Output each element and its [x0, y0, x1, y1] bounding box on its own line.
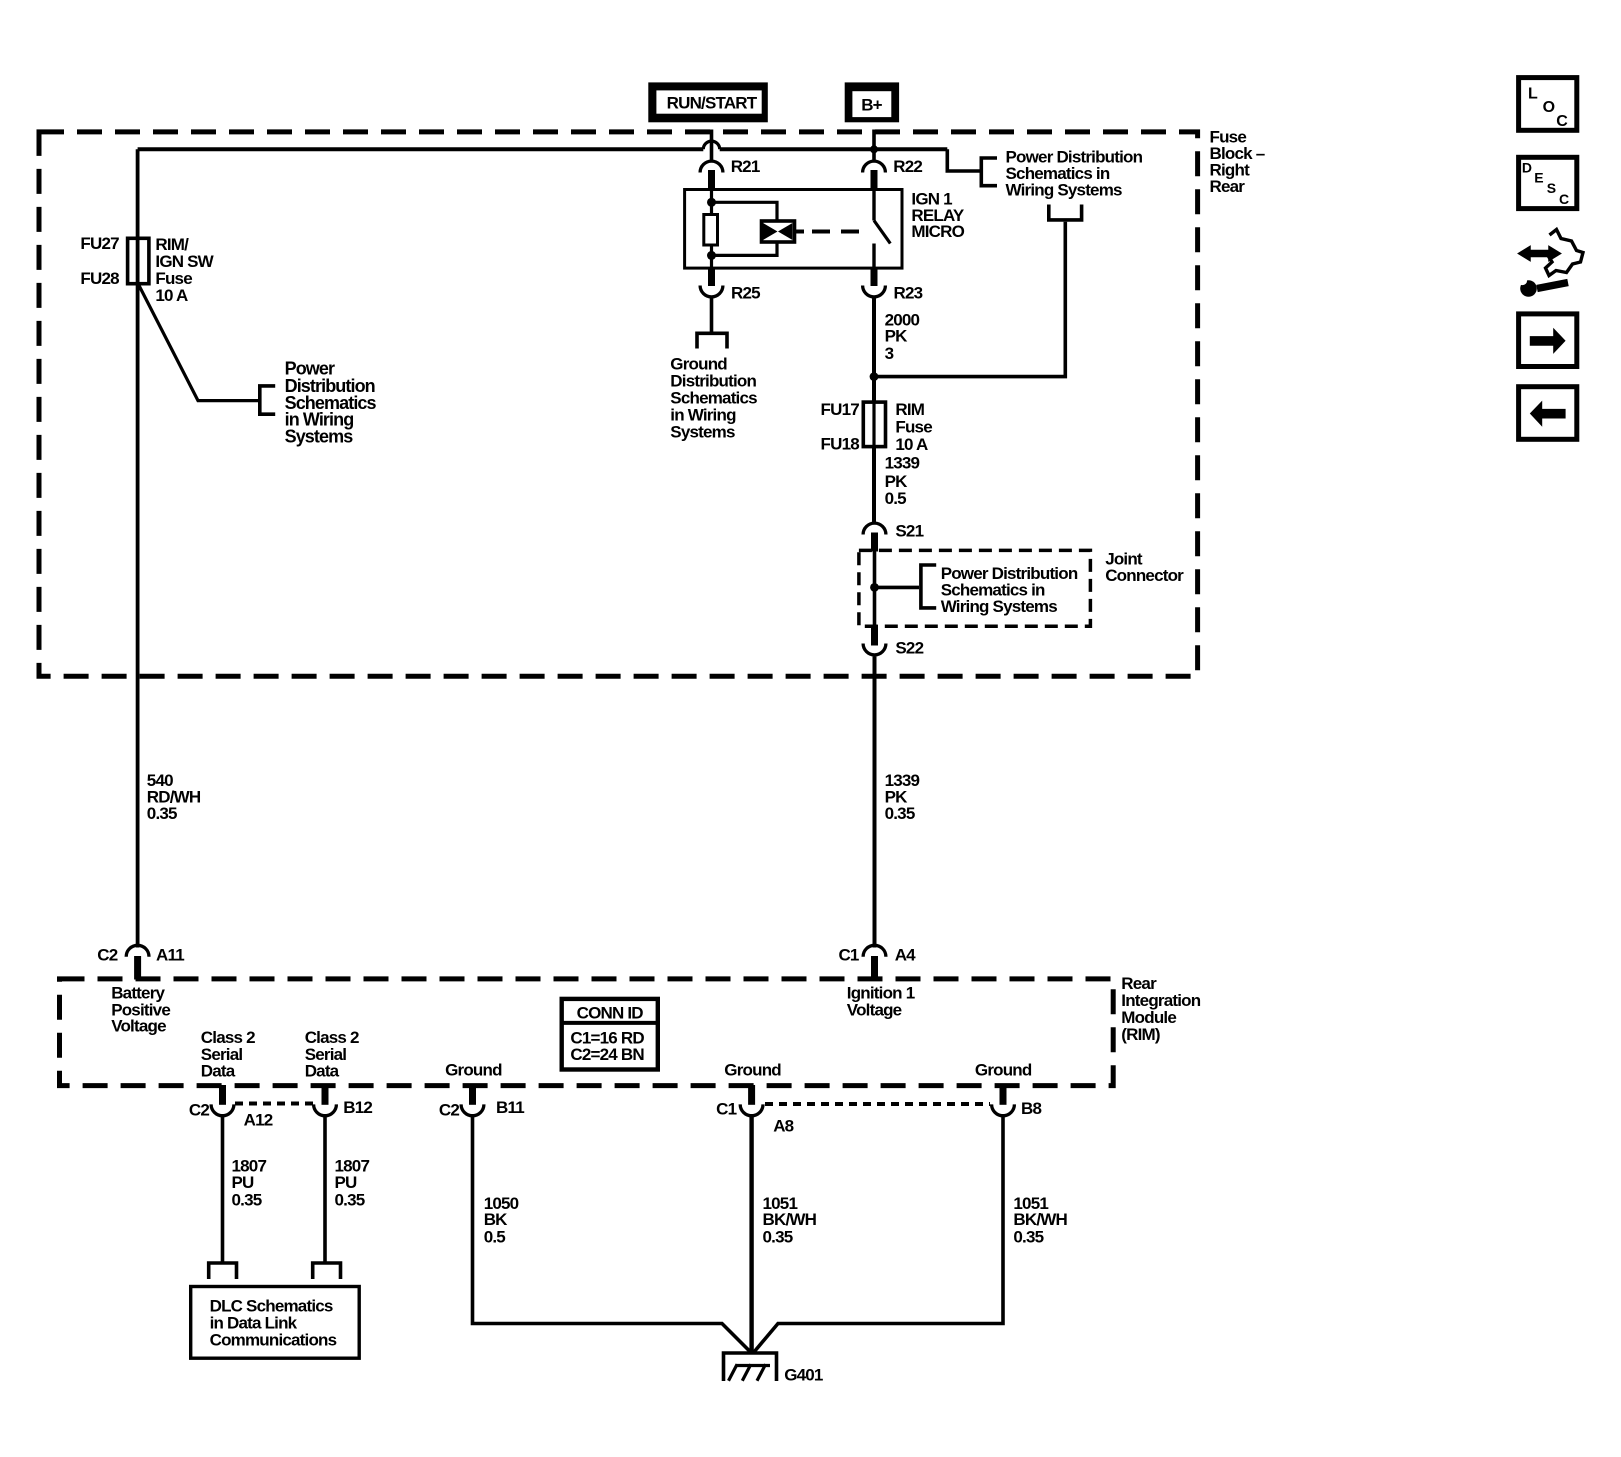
connector C2 pin A12 — [211, 1085, 234, 1116]
wire B+ down to R22 — [872, 130, 876, 163]
ground distribution connector symbol — [697, 333, 727, 348]
svg-text:Data: Data — [305, 1062, 340, 1081]
svg-text:RIM: RIM — [895, 400, 924, 419]
connector bracket under top-right label — [1049, 205, 1082, 220]
svg-text:10 A: 10 A — [155, 286, 188, 305]
fuse block boundary (Fuse Block - Right Rear) — [39, 132, 1198, 676]
svg-text:Wiring Systems: Wiring Systems — [941, 597, 1058, 616]
svg-text:C1: C1 — [716, 1100, 736, 1119]
connector R22 — [863, 161, 886, 190]
svg-text:A8: A8 — [773, 1117, 793, 1136]
svg-text:Ground: Ground — [724, 1061, 781, 1080]
svg-text:E: E — [1534, 169, 1543, 185]
label 2000 PK 3 — [885, 311, 920, 363]
svg-text:FU27: FU27 — [80, 234, 119, 253]
wire junction to power distribution callout (top right) — [947, 149, 979, 171]
svg-text:S: S — [1547, 180, 1556, 196]
junction node 2000/1339 — [870, 372, 879, 381]
svg-text:Connector: Connector — [1105, 566, 1184, 585]
relay junction top — [707, 198, 716, 207]
DLC connector symbol (A12 wire) — [209, 1263, 237, 1279]
svg-text:C: C — [1559, 191, 1569, 207]
wire 1807 PU 0.35 (A12 to DLC) — [221, 1114, 225, 1262]
relay coil loop wiring — [712, 202, 778, 255]
connector C1 pin A4 — [863, 945, 886, 979]
connector R25 — [700, 268, 723, 297]
label RIM Fuse 10 A — [895, 400, 932, 454]
label Ground Distribution Schematics in Wiring Systems — [670, 354, 757, 441]
connector C1 pin A8 — [740, 1085, 763, 1116]
svg-text:FU28: FU28 — [80, 269, 119, 288]
label 1051 BK/WH 0.35 (A8) — [763, 1194, 817, 1246]
label Power Distribution Schematics in Wiring Systems (top right) — [1006, 148, 1143, 200]
svg-text:Voltage: Voltage — [847, 1000, 902, 1019]
svg-text:D: D — [1522, 160, 1532, 176]
label 1050 BK 0.5 — [484, 1194, 519, 1246]
relay switch — [874, 191, 890, 268]
svg-text:(RIM): (RIM) — [1121, 1025, 1160, 1044]
power node B+ — [845, 82, 899, 122]
wire 1051 BK/WH 0.35 (B8 to G401) — [754, 1114, 1003, 1352]
connector C2 pin A11 — [126, 945, 149, 979]
DLC Schematics box — [191, 1287, 360, 1359]
svg-text:PU: PU — [232, 1173, 255, 1192]
label Fuse Block - Right Rear — [1210, 128, 1265, 196]
svg-text:0.35: 0.35 — [232, 1191, 262, 1210]
icon DESC box — [1519, 157, 1577, 208]
bracket for joint connector callout — [921, 565, 936, 608]
icon schematic navigation (arrows, outline, wrench) — [1516, 230, 1583, 297]
wire 1807 PU 0.35 (B12 to DLC) — [323, 1114, 327, 1262]
svg-text:A11: A11 — [156, 945, 184, 964]
svg-text:CONN ID: CONN ID — [577, 1003, 644, 1022]
RIM module boundary (Rear Integration Module) — [60, 979, 1114, 1086]
svg-text:0.35: 0.35 — [147, 804, 177, 823]
connector R21 — [700, 161, 723, 190]
splice S22 — [863, 625, 886, 655]
label 1807 PU 0.35 (B12) — [335, 1157, 370, 1210]
icon back arrow box — [1519, 387, 1577, 440]
svg-text:A12: A12 — [244, 1110, 273, 1129]
wire 1051 BK/WH 0.35 (A8 to G401) — [749, 1114, 753, 1353]
svg-text:C1: C1 — [838, 945, 858, 964]
svg-text:C: C — [1556, 113, 1568, 130]
connector C2 pin B11 — [461, 1085, 484, 1116]
connector R23 — [863, 268, 886, 297]
svg-text:Communications: Communications — [210, 1331, 337, 1350]
wire inside joint connector — [873, 552, 877, 626]
svg-text:PK: PK — [885, 472, 909, 491]
svg-text:S21: S21 — [895, 521, 923, 540]
wire hop over R21 — [703, 141, 719, 149]
svg-text:Rear: Rear — [1210, 177, 1246, 196]
wire 540 RD/WH 0.35 label — [147, 771, 201, 823]
svg-text:R23: R23 — [894, 283, 923, 302]
wire RUN/START down to R21 — [710, 130, 714, 163]
svg-text:0.35: 0.35 — [335, 1191, 365, 1210]
svg-text:C2=24 BN: C2=24 BN — [570, 1045, 644, 1064]
svg-text:G401: G401 — [784, 1365, 823, 1384]
svg-text:B+: B+ — [861, 95, 882, 114]
wire 1339 PK 0.5 — [872, 447, 876, 524]
svg-text:R21: R21 — [731, 157, 760, 176]
svg-text:BK/WH: BK/WH — [1013, 1210, 1067, 1229]
svg-text:L: L — [1528, 86, 1538, 103]
wire from bracket down to 2000 PK 3 node — [878, 222, 1065, 377]
wire 1339 PK 0.35 (S22 down to C1 A4) — [873, 657, 877, 948]
svg-text:Data: Data — [201, 1062, 236, 1081]
junction node at B+ feed — [870, 145, 878, 153]
svg-text:C2: C2 — [189, 1101, 209, 1120]
fuse FU17/FU18 RIM Fuse 10 A — [863, 402, 885, 447]
label 1807 PU 0.35 (A12) — [232, 1157, 267, 1210]
wire 2000 PK 3 — [872, 297, 876, 403]
wire B+ feed horizontal (hops over R21 wire) — [138, 147, 948, 151]
label Power Distribution Schematics in Wiring Systems (joint connector) — [941, 564, 1078, 616]
label Rear Integration Module (RIM) — [1121, 974, 1200, 1044]
relay coil (box with X) — [762, 221, 805, 242]
relay resistor — [704, 215, 718, 246]
svg-text:10 A: 10 A — [895, 435, 928, 454]
label 1339 PK 0.5 — [885, 454, 920, 508]
svg-text:A4: A4 — [895, 945, 916, 964]
svg-text:Systems: Systems — [670, 422, 735, 441]
svg-text:C2: C2 — [97, 945, 117, 964]
splice S21 — [863, 523, 886, 551]
svg-text:1339: 1339 — [885, 454, 920, 473]
power node RUN/START — [648, 82, 768, 122]
svg-text:B12: B12 — [343, 1098, 372, 1117]
svg-text:C2: C2 — [439, 1101, 459, 1120]
pin label Ignition 1 Voltage — [847, 984, 915, 1020]
svg-text:PU: PU — [335, 1173, 358, 1192]
pin label Class 2 Serial Data (C2 A12) — [201, 1028, 255, 1081]
wire through fuse — [872, 402, 875, 447]
svg-text:Systems: Systems — [285, 427, 354, 447]
svg-text:3: 3 — [885, 344, 894, 363]
relay internal wire below resistor — [710, 245, 713, 268]
connector pin B8 — [992, 1085, 1015, 1116]
svg-text:BK/WH: BK/WH — [763, 1210, 817, 1229]
svg-text:O: O — [1543, 99, 1555, 116]
svg-text:RUN/START: RUN/START — [667, 94, 758, 113]
relay U: IGN 1 RELAY MICRO body — [685, 190, 902, 269]
wire B+ feed down through FU27 fuse to C2 A11 — [136, 149, 140, 947]
pin label Battery Positive Voltage — [111, 984, 170, 1036]
svg-text:0.35: 0.35 — [885, 804, 915, 823]
svg-text:FU17: FU17 — [821, 400, 860, 419]
twisted pair dashed link A12-B12 — [235, 1102, 313, 1106]
svg-text:DLC Schematics: DLC Schematics — [210, 1296, 333, 1315]
pin label Class 2 Serial Data (B12) — [305, 1028, 359, 1081]
label 1051 BK/WH 0.35 (B8) — [1013, 1194, 1067, 1246]
bracket for power distribution callout (left) — [260, 386, 275, 414]
wire R25 to ground callout — [710, 297, 714, 332]
svg-text:B11: B11 — [496, 1098, 524, 1117]
wire 1050 BK 0.5 (B11 to G401) — [473, 1114, 751, 1352]
icon next arrow box — [1519, 314, 1577, 367]
svg-text:0.35: 0.35 — [763, 1227, 793, 1246]
label RIM/ IGN SW Fuse 10 A — [155, 235, 214, 305]
svg-text:0.5: 0.5 — [885, 489, 907, 508]
svg-text:R25: R25 — [731, 283, 760, 302]
DLC connector symbol (B12 wire) — [313, 1263, 341, 1279]
svg-text:R22: R22 — [893, 157, 922, 176]
relay actuation dashed link — [812, 230, 870, 234]
icon LOC box — [1519, 78, 1577, 131]
joint connector boundary — [859, 550, 1091, 626]
connector pin B12 — [314, 1085, 337, 1116]
label 1339 PK 0.35 — [885, 771, 920, 823]
junction node in joint connector — [870, 583, 879, 592]
CONN ID table — [562, 999, 658, 1070]
svg-text:Wiring Systems: Wiring Systems — [1006, 181, 1123, 200]
label Power Distribution Schematics in Wiring Systems (left) — [285, 359, 377, 447]
bracket for power distribution callout (top right) — [981, 158, 997, 186]
svg-text:0.5: 0.5 — [484, 1227, 506, 1246]
svg-text:BK: BK — [484, 1210, 508, 1229]
svg-text:Voltage: Voltage — [111, 1016, 166, 1035]
svg-text:Ground: Ground — [445, 1061, 502, 1080]
callout line from fuse to power distribution label (left) — [139, 285, 259, 401]
svg-text:FU18: FU18 — [821, 435, 860, 454]
fuse FU27/FU28 RIM/IGN SW Fuse 10 A — [128, 238, 149, 283]
svg-text:S22: S22 — [895, 639, 923, 658]
label Joint Connector — [1105, 549, 1184, 585]
svg-text:0.35: 0.35 — [1013, 1227, 1043, 1246]
ground G401 symbol — [724, 1353, 777, 1381]
svg-text:MICRO: MICRO — [911, 222, 964, 241]
twisted pair dashed link A8-B8 — [765, 1102, 990, 1106]
svg-text:Ground: Ground — [975, 1061, 1032, 1080]
wire junction to joint bracket — [875, 586, 920, 590]
label IGN 1 RELAY MICRO — [911, 190, 965, 241]
relay internal wire left pin — [710, 191, 713, 217]
relay junction bottom — [707, 251, 716, 260]
svg-text:B8: B8 — [1021, 1099, 1041, 1118]
